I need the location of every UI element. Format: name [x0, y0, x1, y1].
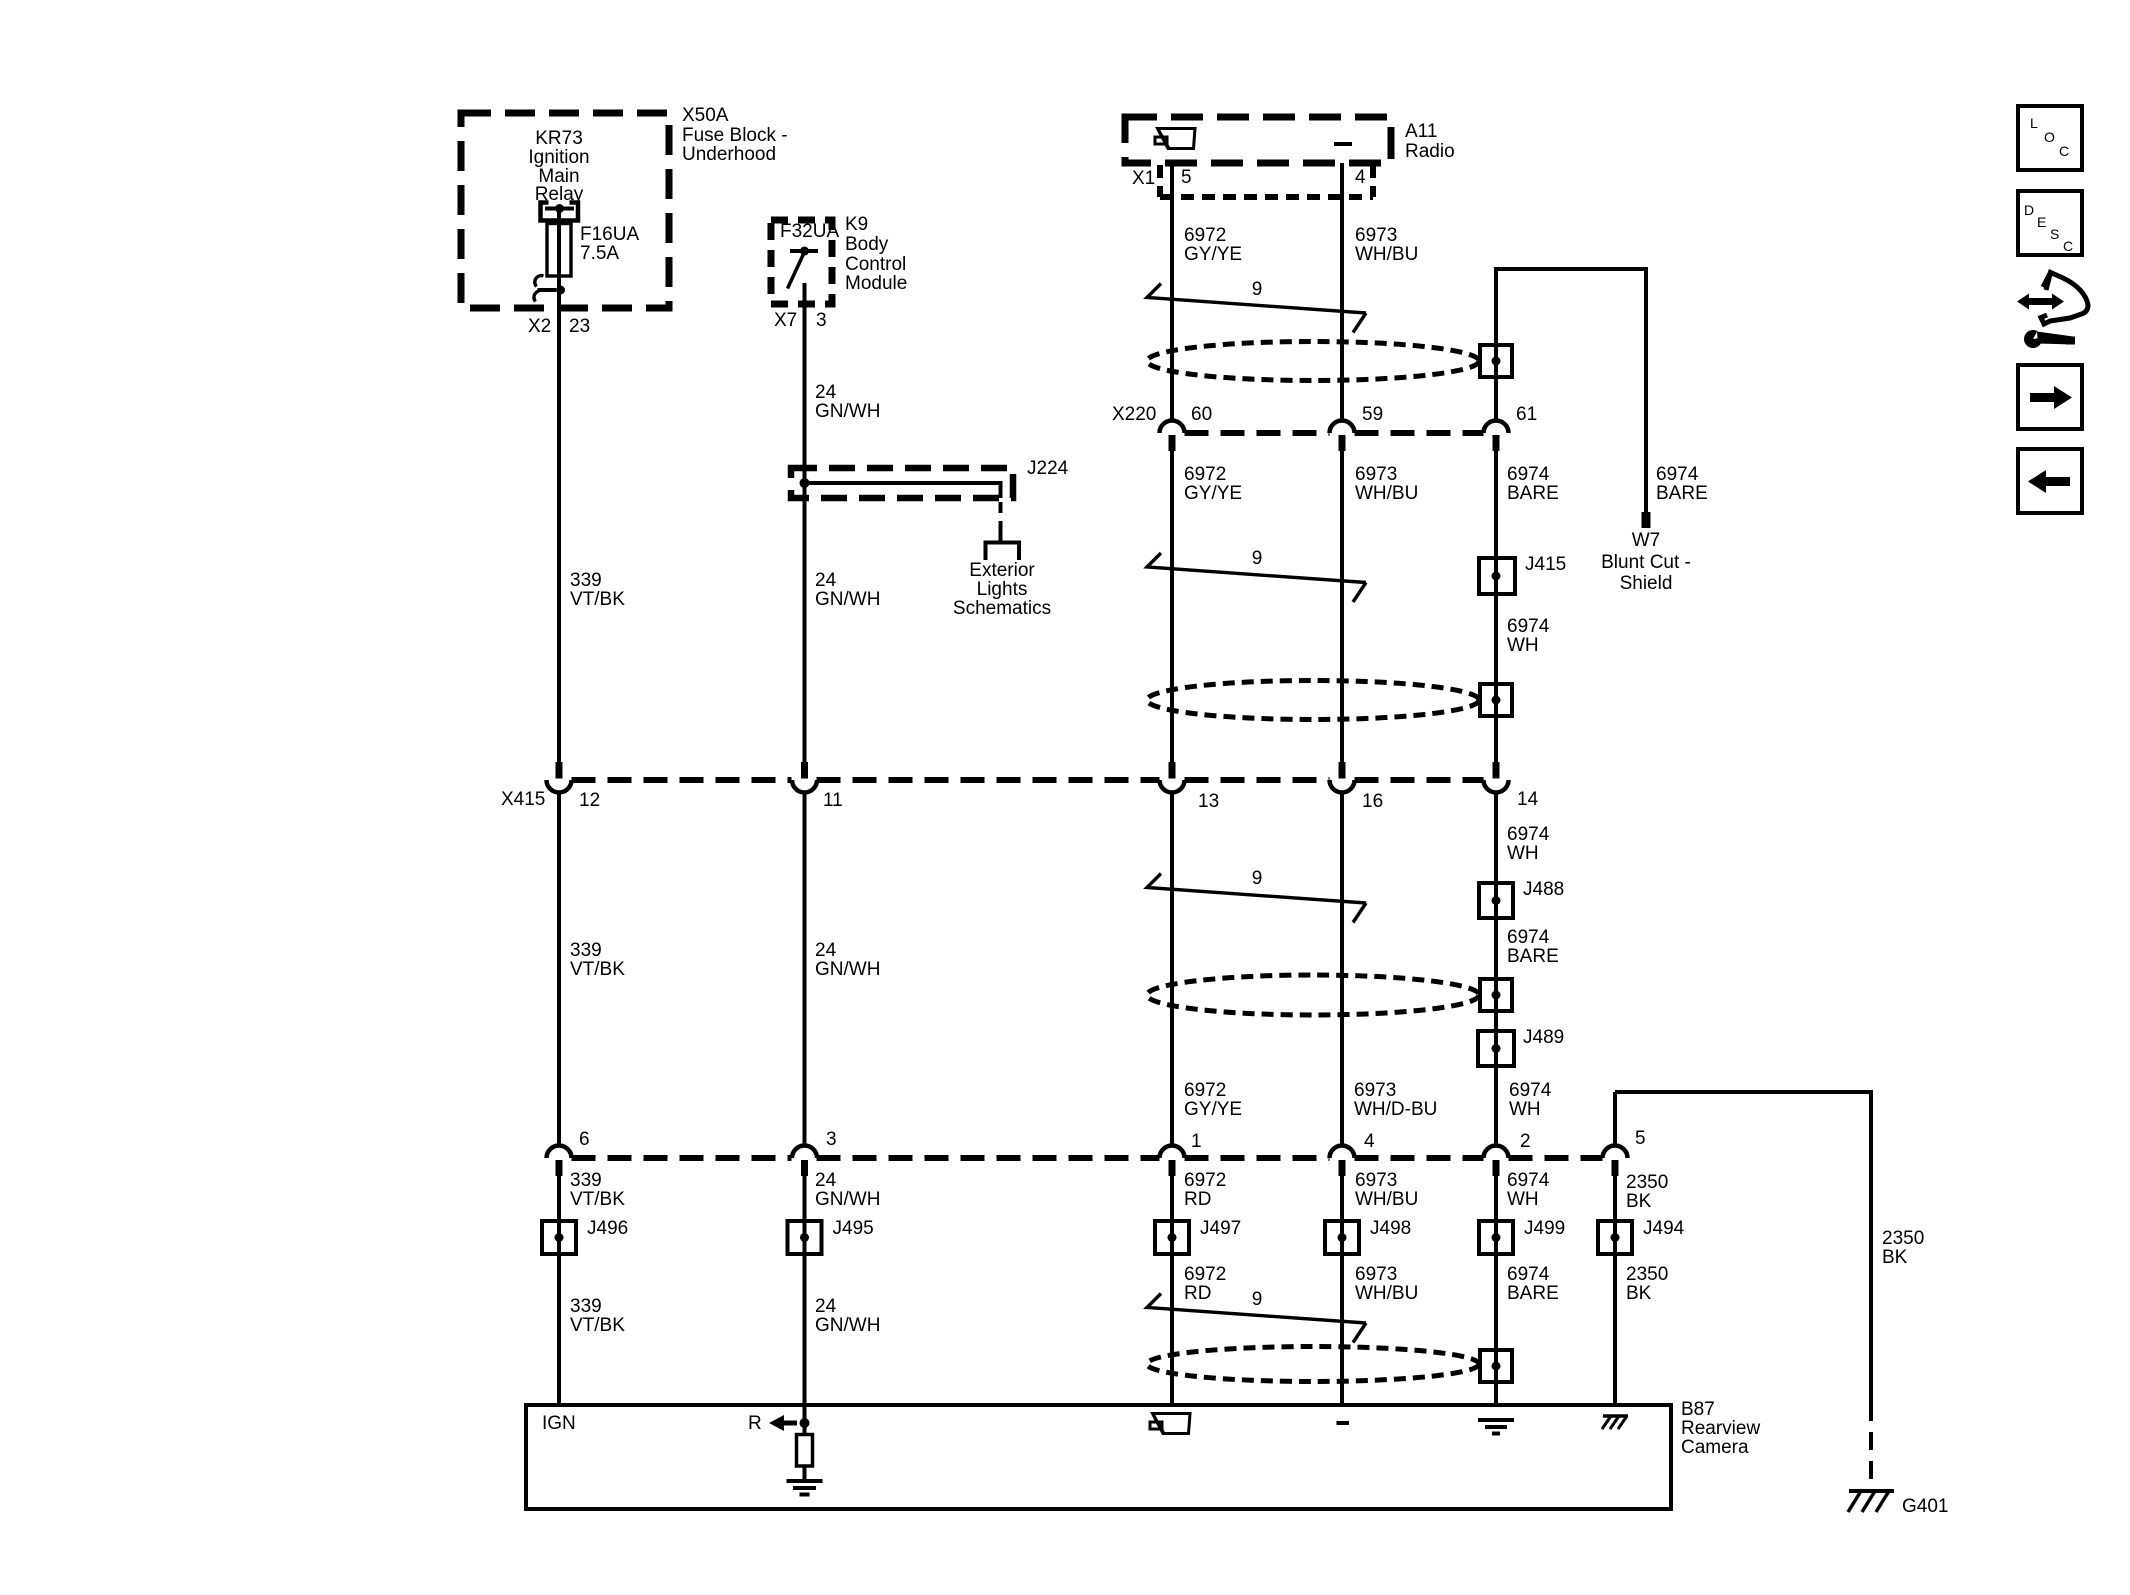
wire label 2350 above J494 — [1626, 1172, 1668, 1212]
shield drain box E3 — [1480, 978, 1512, 1012]
svg-text:3: 3 — [816, 310, 827, 331]
J494 label — [1643, 1218, 1685, 1239]
J499 label — [1524, 1218, 1565, 1239]
svg-text:6: 6 — [579, 1129, 590, 1150]
svg-text:24: 24 — [815, 1296, 837, 1317]
svg-text:VT/BK: VT/BK — [570, 589, 625, 610]
wire label 6974 below camera connector — [1507, 1170, 1550, 1210]
X220 pin 61 terminal — [1484, 421, 1509, 452]
wire label 24 under BCM — [815, 382, 880, 422]
wire label 6972 under X220 — [1184, 464, 1242, 504]
svg-text:RD: RD — [1184, 1189, 1211, 1210]
chassis ground symbol in B87 — [1602, 1416, 1628, 1429]
svg-text:J495: J495 — [833, 1218, 874, 1239]
svg-text:9: 9 — [1252, 279, 1263, 300]
LOC legend box — [2018, 106, 2082, 170]
svg-text:12: 12 — [579, 790, 600, 811]
wire jog shield to blunt cut — [1496, 269, 1646, 512]
connector X220 dashed row — [1185, 430, 1484, 436]
camera connector dashed row — [572, 1155, 1603, 1161]
svg-text:6974: 6974 — [1656, 464, 1699, 485]
svg-text:Radio: Radio — [1405, 141, 1455, 162]
svg-text:GN/WH: GN/WH — [815, 401, 880, 422]
svg-text:339: 339 — [570, 1296, 602, 1317]
shield ellipse E4 — [1147, 1347, 1479, 1382]
splice J494 — [1598, 1220, 1632, 1255]
svg-text:BK: BK — [1626, 1283, 1652, 1304]
svg-text:6974: 6974 — [1507, 1170, 1550, 1191]
relay KR73 label — [528, 128, 589, 205]
svg-text:14: 14 — [1517, 789, 1539, 810]
svg-text:J496: J496 — [587, 1218, 628, 1239]
svg-text:J488: J488 — [1523, 879, 1564, 900]
J224 junction and branch wire — [800, 478, 1001, 543]
svg-text:WH: WH — [1507, 843, 1539, 864]
wire relay to fuse — [557, 208, 561, 224]
svg-text:J499: J499 — [1524, 1218, 1565, 1239]
svg-text:6972: 6972 — [1184, 1080, 1226, 1101]
shield drain box E2 — [1480, 683, 1512, 717]
splice J495 — [788, 1220, 822, 1255]
camera connector pin labels — [579, 1128, 1646, 1152]
svg-text:6972: 6972 — [1184, 464, 1226, 485]
wire label 6974 under X220 — [1507, 464, 1559, 504]
X415 pin 14 terminal — [1484, 762, 1509, 793]
svg-text:VT/BK: VT/BK — [570, 1315, 625, 1336]
splice J499 — [1479, 1220, 1513, 1255]
twisted pair count 9 (top) — [1252, 279, 1263, 300]
X415 pin 13 terminal — [1160, 762, 1185, 793]
svg-text:C: C — [2063, 238, 2073, 254]
wire label 6974 above camera connector — [1509, 1080, 1552, 1120]
svg-text:X50A: X50A — [682, 105, 729, 126]
svg-text:IGN: IGN — [542, 1413, 576, 1434]
wire 6973 from radio pin 4 — [1340, 163, 1344, 1405]
svg-text:WH/D-BU: WH/D-BU — [1354, 1099, 1437, 1120]
X415 pin 12 terminal — [547, 762, 572, 793]
svg-text:J497: J497 — [1200, 1218, 1241, 1239]
svg-text:Module: Module — [845, 273, 907, 294]
svg-text:24: 24 — [815, 940, 837, 961]
svg-text:Lights: Lights — [977, 579, 1028, 600]
F32UA label — [780, 221, 839, 242]
IGN pin label — [542, 1413, 576, 1434]
connector X415 dashed row — [572, 777, 1484, 783]
J495 label — [833, 1218, 874, 1239]
off-page connector to exterior lights — [986, 543, 1020, 561]
wire label 6973 below J498 — [1355, 1264, 1418, 1304]
svg-text:4: 4 — [1364, 1131, 1375, 1152]
pin labels X7 3 — [774, 310, 827, 331]
svg-text:F16UA: F16UA — [580, 224, 639, 245]
twisted pair symbol T1 — [1147, 284, 1366, 333]
B87 Rearview Camera label — [1681, 1399, 1760, 1458]
svg-text:G401: G401 — [1902, 1496, 1948, 1517]
svg-text:5: 5 — [1181, 167, 1192, 188]
svg-text:6973: 6973 — [1355, 1170, 1397, 1191]
svg-text:S: S — [2050, 226, 2059, 242]
svg-text:WH/BU: WH/BU — [1355, 483, 1418, 504]
splice pack J224 dashed box — [791, 468, 1013, 498]
wire label 24 below J495 — [815, 1296, 880, 1336]
shield ellipse E1 — [1147, 342, 1479, 381]
connector X1 dashed strip — [1160, 165, 1373, 197]
wire label 6973 under X220 — [1355, 464, 1418, 504]
svg-text:Ignition: Ignition — [528, 147, 589, 168]
wire label 6973 above camera connector — [1354, 1080, 1437, 1120]
svg-text:VT/BK: VT/BK — [570, 1189, 625, 1210]
relay output contact hooks and junction — [534, 276, 565, 302]
svg-text:J494: J494 — [1643, 1218, 1685, 1239]
svg-text:GN/WH: GN/WH — [815, 959, 880, 980]
J224 label — [1027, 458, 1069, 479]
svg-text:3: 3 — [826, 1129, 837, 1150]
svg-text:59: 59 — [1362, 404, 1383, 425]
X415 pin 11 terminal — [792, 762, 817, 793]
next page arrow box — [2018, 365, 2082, 429]
X220 labels — [1112, 404, 1537, 425]
svg-text:L: L — [2030, 115, 2038, 131]
wire label 6974 under X415 — [1507, 824, 1550, 864]
camera icon in B87 — [1150, 1414, 1190, 1434]
splice J496 — [542, 1220, 576, 1255]
X415 labels — [501, 789, 1539, 812]
J496 label — [587, 1218, 628, 1239]
twisted pair symbol T2 — [1147, 553, 1366, 602]
wire label 6974 under J488 — [1507, 927, 1559, 967]
camera connector pin 1 terminal — [1160, 1146, 1185, 1177]
shield drain box E4 — [1480, 1349, 1512, 1383]
wire label 2350 below J494 — [1626, 1264, 1668, 1304]
svg-text:GN/WH: GN/WH — [815, 589, 880, 610]
Exterior Lights Schematics label — [953, 560, 1051, 619]
service tool icon — [2017, 273, 2088, 349]
wire label 6972 under radio — [1184, 225, 1242, 265]
wire label 24 below camera connector — [815, 1170, 880, 1210]
svg-text:6973: 6973 — [1354, 1080, 1396, 1101]
fuse value label F16UA 7.5A — [580, 224, 639, 264]
shield ellipse E2 — [1147, 681, 1479, 720]
svg-text:24: 24 — [815, 570, 837, 591]
svg-text:A11: A11 — [1405, 121, 1437, 142]
svg-text:9: 9 — [1252, 868, 1263, 889]
wire label 6974 below J499 — [1507, 1264, 1559, 1304]
J415 label — [1525, 554, 1566, 575]
splice J415 — [1479, 557, 1515, 595]
wire label 6973 under radio — [1355, 225, 1418, 265]
dashed wire to G401 — [1869, 1403, 1873, 1491]
svg-text:WH: WH — [1507, 635, 1539, 656]
svg-text:X2: X2 — [528, 316, 551, 337]
BCM K9 dashed box — [771, 220, 832, 304]
svg-text:D: D — [2024, 202, 2034, 218]
wire label 24 mid — [815, 570, 880, 610]
svg-text:Control: Control — [845, 254, 906, 275]
wire pin5 to ground link — [1615, 1092, 1871, 1405]
twisted pair count 9 (bottom) — [1252, 1289, 1263, 1310]
radio camera display icon — [1155, 129, 1195, 149]
svg-text:X7: X7 — [774, 310, 797, 331]
rearview camera B87 box — [526, 1405, 1671, 1509]
svg-text:WH/BU: WH/BU — [1355, 1189, 1418, 1210]
svg-text:X415: X415 — [501, 789, 545, 810]
svg-text:339: 339 — [570, 1170, 602, 1191]
svg-text:11: 11 — [823, 790, 843, 811]
DESC legend box — [2018, 191, 2082, 255]
minus pin symbol in B87 — [1337, 1421, 1350, 1425]
R pin label and arrow — [748, 1413, 810, 1434]
wire label 339 below camera connector — [570, 1170, 625, 1210]
svg-text:6972: 6972 — [1184, 1170, 1226, 1191]
twisted pair count 9 (middle) — [1252, 548, 1263, 569]
svg-text:6974: 6974 — [1507, 616, 1550, 637]
svg-text:WH/BU: WH/BU — [1355, 1283, 1418, 1304]
K9 Body Control Module label — [845, 214, 907, 294]
svg-text:KR73: KR73 — [535, 128, 583, 149]
twisted pair count 9 (lower middle) — [1252, 868, 1263, 889]
J497 label — [1200, 1218, 1241, 1239]
splice J488 — [1479, 882, 1513, 919]
X1 pin labels — [1132, 167, 1366, 189]
svg-text:1: 1 — [1191, 1131, 1202, 1152]
svg-text:X1: X1 — [1132, 168, 1155, 189]
svg-text:2350: 2350 — [1626, 1264, 1668, 1285]
svg-text:13: 13 — [1198, 791, 1219, 812]
pin labels X2 23 — [528, 316, 590, 337]
svg-text:Fuse Block -: Fuse Block - — [682, 125, 788, 146]
svg-text:WH: WH — [1509, 1099, 1541, 1120]
svg-text:Blunt Cut -: Blunt Cut - — [1601, 552, 1691, 573]
svg-text:GY/YE: GY/YE — [1184, 483, 1242, 504]
svg-text:Rearview: Rearview — [1681, 1418, 1760, 1439]
svg-text:60: 60 — [1191, 404, 1212, 425]
svg-text:Underhood: Underhood — [682, 144, 776, 165]
wire 339 VT/BK from fuse block — [557, 290, 561, 1405]
wire label 6972 below J497 — [1184, 1264, 1226, 1304]
svg-text:RD: RD — [1184, 1283, 1211, 1304]
svg-text:Shield: Shield — [1620, 573, 1673, 594]
camera connector pin 6 terminal — [547, 1146, 572, 1177]
fuse block X50A dashed box — [461, 113, 669, 308]
svg-text:Body: Body — [845, 234, 889, 255]
wire label 6973 below camera connector — [1355, 1170, 1418, 1210]
svg-text:GY/YE: GY/YE — [1184, 1099, 1242, 1120]
fuse F16UA — [547, 223, 571, 290]
wire 24 GN/WH from BCM — [803, 283, 807, 1423]
svg-text:6973: 6973 — [1355, 1264, 1397, 1285]
svg-text:J498: J498 — [1370, 1218, 1411, 1239]
X415 pin 16 terminal — [1330, 762, 1355, 793]
J488 label — [1523, 879, 1564, 900]
X220 pin 60 terminal — [1160, 421, 1185, 452]
wire label 339 under X415 — [570, 940, 625, 980]
svg-text:6973: 6973 — [1355, 464, 1397, 485]
svg-text:F32UA: F32UA — [780, 221, 839, 242]
shield drain box E1 — [1480, 344, 1512, 378]
camera connector pin 3 terminal — [792, 1146, 817, 1177]
splice J498 — [1325, 1220, 1359, 1255]
svg-text:Exterior: Exterior — [969, 560, 1035, 581]
internal ground symbol — [787, 1481, 823, 1495]
svg-text:16: 16 — [1362, 791, 1383, 812]
svg-text:BARE: BARE — [1507, 1283, 1559, 1304]
shield ground symbol in B87 — [1478, 1420, 1514, 1434]
svg-text:VT/BK: VT/BK — [570, 959, 625, 980]
J498 label — [1370, 1218, 1411, 1239]
svg-text:61: 61 — [1516, 404, 1537, 425]
X50A label — [682, 105, 788, 165]
radio A11 dashed box — [1125, 117, 1391, 163]
svg-text:6973: 6973 — [1355, 225, 1397, 246]
wire label 2350 BK right — [1882, 1228, 1924, 1268]
svg-text:Camera: Camera — [1681, 1437, 1749, 1458]
svg-text:339: 339 — [570, 570, 602, 591]
camera connector pin 2 terminal — [1484, 1146, 1509, 1177]
svg-text:6974: 6974 — [1507, 824, 1550, 845]
svg-text:BARE: BARE — [1656, 483, 1708, 504]
svg-text:6972: 6972 — [1184, 1264, 1226, 1285]
ground G401 chassis symbol — [1848, 1491, 1894, 1512]
W7 label — [1601, 530, 1691, 594]
svg-text:J415: J415 — [1525, 554, 1566, 575]
twisted pair symbol T4 — [1147, 1294, 1366, 1343]
svg-text:7.5A: 7.5A — [580, 243, 619, 264]
svg-text:J224: J224 — [1027, 458, 1069, 479]
X220 pin 59 terminal — [1330, 421, 1355, 452]
wire label 339 below J496 — [570, 1296, 625, 1336]
svg-text:2350: 2350 — [1626, 1172, 1668, 1193]
internal resistor — [797, 1423, 813, 1481]
splice J497 — [1155, 1220, 1189, 1255]
svg-text:K9: K9 — [845, 214, 868, 235]
svg-text:23: 23 — [569, 316, 590, 337]
J489 label — [1523, 1027, 1564, 1048]
wire label 6972 above camera connector — [1184, 1080, 1242, 1120]
splice J489 — [1478, 1030, 1514, 1067]
wire label 339 mid — [570, 570, 625, 610]
svg-text:J489: J489 — [1523, 1027, 1564, 1048]
svg-text:6972: 6972 — [1184, 225, 1226, 246]
wire label 6972 below camera connector — [1184, 1170, 1226, 1210]
svg-text:6974: 6974 — [1507, 927, 1550, 948]
svg-text:9: 9 — [1252, 548, 1263, 569]
twisted pair symbol T3 — [1147, 874, 1366, 923]
A11 Radio label — [1405, 121, 1455, 162]
svg-text:6974: 6974 — [1509, 1080, 1552, 1101]
svg-text:9: 9 — [1252, 1289, 1263, 1310]
wire 6974 BARE at blunt cut label — [1656, 464, 1708, 504]
camera connector pin 5 terminal — [1603, 1146, 1628, 1177]
camera connector pin 4 terminal — [1330, 1146, 1355, 1177]
relay KR73 contact symbol — [541, 203, 579, 221]
radio minus pin symbol — [1334, 142, 1352, 146]
wire label 24 under X415 — [815, 940, 880, 980]
K9 internal switch symbol — [788, 247, 819, 289]
svg-text:GN/WH: GN/WH — [815, 1315, 880, 1336]
wire 6974 shield drain — [1494, 267, 1498, 1405]
svg-text:B87: B87 — [1681, 1399, 1715, 1420]
svg-text:R: R — [748, 1413, 762, 1434]
svg-text:WH/BU: WH/BU — [1355, 244, 1418, 265]
previous page arrow box — [2018, 449, 2082, 513]
svg-text:Schematics: Schematics — [953, 598, 1051, 619]
svg-text:6974: 6974 — [1507, 464, 1550, 485]
svg-text:339: 339 — [570, 940, 602, 961]
svg-text:BK: BK — [1882, 1247, 1908, 1268]
svg-text:O: O — [2044, 129, 2055, 145]
svg-text:4: 4 — [1355, 167, 1366, 188]
shield ellipse E3 — [1147, 975, 1479, 1015]
svg-text:GY/YE: GY/YE — [1184, 244, 1242, 265]
svg-text:C: C — [2059, 143, 2069, 159]
svg-text:E: E — [2037, 214, 2046, 230]
svg-text:24: 24 — [815, 1170, 837, 1191]
svg-text:2350: 2350 — [1882, 1228, 1924, 1249]
wire label 6974 under J415 — [1507, 616, 1550, 656]
wire 6972 from radio pin 5 — [1170, 163, 1174, 1405]
svg-text:2: 2 — [1520, 1131, 1531, 1152]
svg-text:BARE: BARE — [1507, 483, 1559, 504]
svg-text:WH: WH — [1507, 1189, 1539, 1210]
svg-text:24: 24 — [815, 382, 837, 403]
svg-text:X220: X220 — [1112, 404, 1156, 425]
G401 label — [1902, 1496, 1948, 1517]
svg-text:GN/WH: GN/WH — [815, 1189, 880, 1210]
svg-text:BK: BK — [1626, 1191, 1652, 1212]
svg-text:W7: W7 — [1632, 530, 1661, 551]
W7 blunt cut end — [1642, 512, 1651, 528]
svg-text:6974: 6974 — [1507, 1264, 1550, 1285]
svg-text:BARE: BARE — [1507, 946, 1559, 967]
svg-text:5: 5 — [1635, 1128, 1646, 1149]
